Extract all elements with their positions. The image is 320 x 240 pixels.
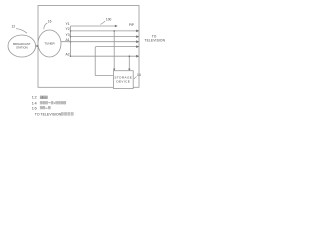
svg-text:Y1: Y1	[65, 22, 69, 26]
svg-text:14: 14	[32, 100, 38, 105]
svg-text:A1: A1	[65, 38, 69, 42]
svg-text:TO TELEVISION: TO TELEVISION	[35, 113, 62, 117]
svg-text:Y2: Y2	[65, 27, 69, 31]
svg-text:A2: A2	[65, 52, 69, 56]
svg-text:TUNER: TUNER	[44, 42, 55, 46]
svg-text:PIP: PIP	[129, 23, 134, 27]
svg-text:12: 12	[32, 95, 37, 100]
svg-text:TELEVISION: TELEVISION	[144, 38, 165, 42]
svg-text:DEVICE: DEVICE	[116, 79, 130, 83]
svg-text:14: 14	[137, 73, 141, 77]
svg-text:STATION: STATION	[16, 46, 28, 50]
svg-text:16: 16	[32, 106, 37, 111]
svg-text:Y3: Y3	[65, 33, 69, 37]
svg-text:100: 100	[106, 18, 112, 22]
svg-text:16: 16	[48, 19, 52, 23]
svg-text:12: 12	[12, 25, 16, 29]
